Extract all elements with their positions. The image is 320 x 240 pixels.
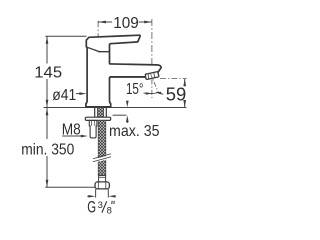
svg-text:3: 3 [98,200,103,211]
washer bar [85,117,110,120]
wire: countertop surface line [44,107,187,109]
59 arrows [183,79,186,86]
faucet body outline [86,35,161,107]
svg-text:max. 35: max. 35 [109,123,160,140]
aerator at spout tip [145,72,159,80]
spout bottom edge [110,76,146,78]
109 arrows [98,21,106,24]
G3/8 arrows [87,195,90,197]
M8 leader arrow [62,135,82,137]
shank tubes below counter [94,108,96,118]
right extension / vertical reference dash-dot line [151,19,153,65]
G3/8 connector nut [95,182,109,189]
G3/8 extension lines [95,189,97,197]
hose (braided) long segment [98,120,106,175]
hose end collar [99,176,106,182]
cap seam diagonal [87,47,109,51]
svg-text:145: 145 [34,65,62,82]
outlet level dash-dot extension line [160,78,187,80]
angle arc [148,92,159,93]
dimension 145 extension line top [45,35,86,37]
max.35 lower extension line [113,114,127,116]
dimension 145 vertical line [46,36,48,107]
max.35 arrows [126,101,129,108]
15 degree tilted axis dash-dot [150,73,159,94]
svg-text:M8: M8 [62,121,81,138]
svg-text:G: G [87,198,96,216]
dimension 59 vertical line [184,79,186,108]
svg-text:min. 350: min. 350 [21,142,74,159]
svg-text:ø41: ø41 [52,87,76,104]
hose (braided) upper segment [97,108,103,118]
145 arrows [46,36,49,44]
arc arrowhead left with tail [144,92,147,94]
centerline of faucet body (dash-dot) [97,21,99,106]
arc arrowhead right with tail [160,92,163,95]
min.350 arrows [46,108,49,116]
hose break symbol [93,154,111,163]
min.350 bottom extension line [45,186,95,188]
svg-text:109: 109 [113,15,139,32]
svg-text:8: 8 [107,206,112,217]
svg-text:15°: 15° [126,81,144,98]
dimension min.350 vertical line [46,108,48,187]
svg-text:59: 59 [166,84,187,104]
M8 stud [89,120,97,137]
dimension 109 line [98,21,151,23]
ø41 leader arrow [76,93,80,95]
